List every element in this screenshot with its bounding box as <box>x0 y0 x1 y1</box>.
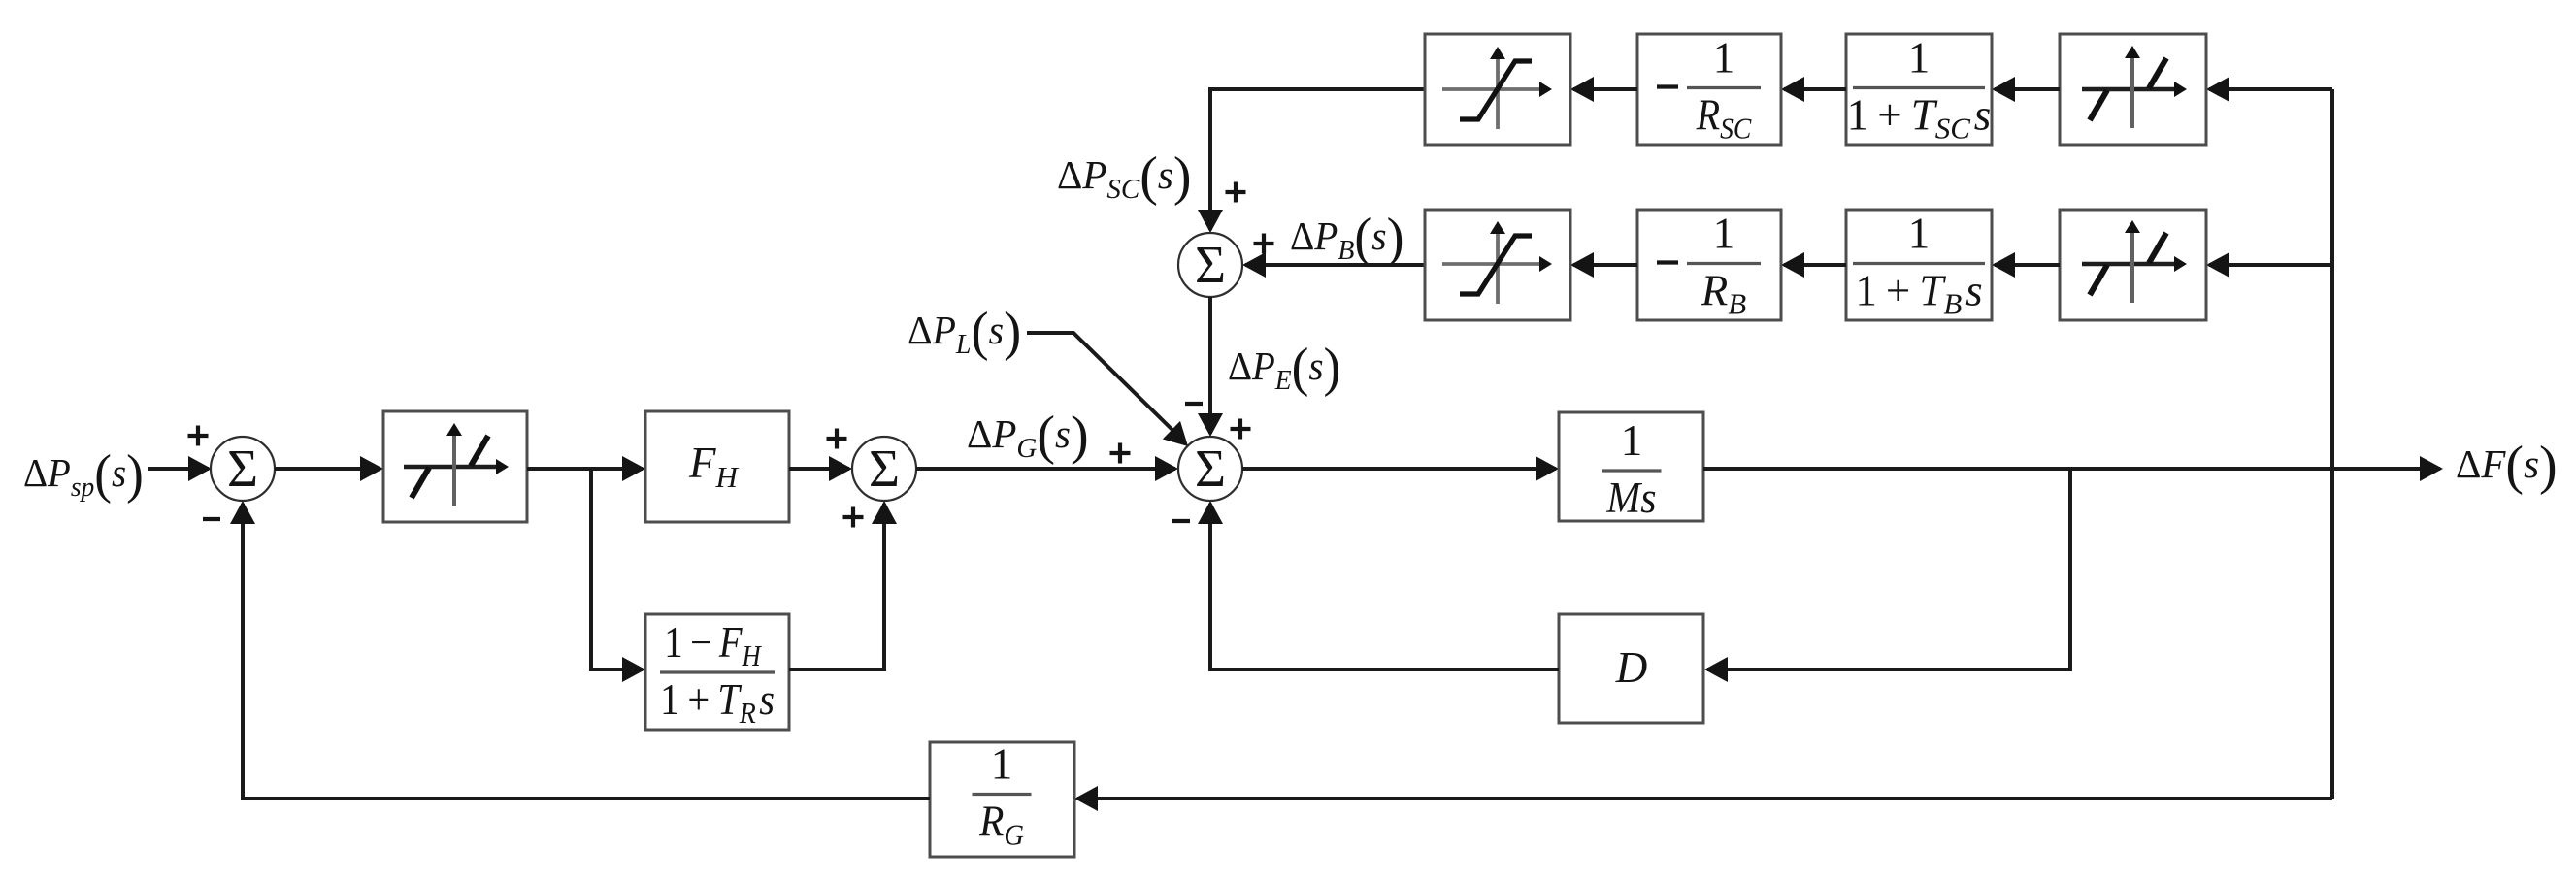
wire to -1/R_SC <box>1781 77 1846 102</box>
block GDB3 dead-band chain2 <box>2060 210 2206 320</box>
label ΔP_L(s) <box>908 301 1021 361</box>
wire F_H to sum S2 <box>789 456 852 481</box>
svg-text:D: D <box>1615 643 1648 692</box>
label ΔP_E(s) <box>1228 337 1340 398</box>
label ΔP_G(s) <box>967 406 1089 466</box>
wire branch down to transfer block <box>591 469 645 682</box>
svg-text:1: 1 <box>1908 34 1931 82</box>
wire chain2 output into S4 right <box>1242 252 1425 278</box>
wire S1 to dead-band GDB1 <box>275 456 383 481</box>
block 1/(1+T_SC s) <box>1846 34 1992 146</box>
svg-text:Σ: Σ <box>1195 235 1226 294</box>
summing junction S2 <box>852 437 916 501</box>
svg-text:1 + TR s: 1 + TR s <box>660 676 775 730</box>
block GRC2 saturation chain2 <box>1425 210 1570 320</box>
svg-text:1: 1 <box>1621 416 1643 465</box>
block 1/(1+T_B s) <box>1846 210 1992 321</box>
sign − at S3 lower-right <box>1172 519 1190 523</box>
wire to limiter GRC1 <box>1570 77 1637 102</box>
block D <box>1559 614 1703 723</box>
svg-text:1: 1 <box>1908 210 1931 258</box>
svg-text:1 + TB s: 1 + TB s <box>1855 267 1982 321</box>
block -1/R_SC <box>1637 34 1781 146</box>
wire ΔP_L leader and diagonal arrow <box>1027 333 1188 446</box>
wire 1/Ms to output ΔF(s) <box>1703 456 2443 481</box>
svg-text:1 + TSC s: 1 + TSC s <box>1847 91 1991 146</box>
wire takeoff down to D block <box>1704 469 2070 682</box>
block 1/Ms <box>1559 412 1703 522</box>
wire feedback to 1/R_G <box>1074 786 2332 811</box>
sign + at S1 upper left <box>188 426 209 446</box>
sign + at S2 upper left <box>827 429 847 449</box>
summing junction S4 <box>1178 233 1242 297</box>
wire to limiter GRC2 <box>1570 252 1637 278</box>
sign + at S3 upper-right <box>1231 419 1251 440</box>
svg-text:1: 1 <box>1713 210 1735 258</box>
block F_H <box>645 411 789 522</box>
wire input to sum S1 <box>148 456 212 481</box>
sign − at S3 upper-left <box>1185 402 1203 406</box>
svg-text:1: 1 <box>991 740 1013 789</box>
sign + at S4 right <box>1254 234 1274 254</box>
summing junction S1 <box>211 437 275 501</box>
wire to -1/R_B <box>1781 252 1846 278</box>
sign + at S4 top <box>1226 182 1246 203</box>
svg-text:Σ: Σ <box>869 439 900 498</box>
wire GDB1 to F_H with branch node <box>527 456 645 481</box>
wire top chain output down into S4 <box>1198 89 1425 233</box>
svg-text:Σ: Σ <box>227 439 258 498</box>
wire 1/R_G to S1 bottom <box>230 501 930 799</box>
block GDB1 governor dead-band <box>383 411 527 522</box>
block 1/R_G <box>930 740 1074 858</box>
block GRC1 saturation chain1 <box>1425 34 1570 145</box>
svg-text:Ms: Ms <box>1605 474 1656 523</box>
wire D to S3 bottom <box>1198 501 1559 670</box>
svg-text:Σ: Σ <box>1195 439 1226 498</box>
label ΔP_B(s) <box>1290 207 1404 267</box>
svg-text:1: 1 <box>1713 34 1735 82</box>
sign − at S1 lower left <box>203 517 220 521</box>
wire S2 to main sum S3 <box>916 456 1178 481</box>
label ΔP_SC(s) <box>1057 147 1192 207</box>
wire GDB2 to 1/(1+T_SC s) <box>1992 77 2060 102</box>
wire into dead-band GDB2 <box>2206 77 2332 102</box>
sign + at S3 left <box>1110 443 1131 464</box>
block -1/R_B <box>1637 210 1781 321</box>
summing junction S3 main <box>1178 437 1242 501</box>
wire S3 to 1/Ms <box>1242 456 1559 481</box>
wire GDB3 to 1/(1+T_B s) <box>1992 252 2060 278</box>
block (1-F_H)/(1+T_R s) <box>645 614 789 730</box>
label ΔP_sp(s) input <box>23 443 144 505</box>
wire into dead-band GDB3 <box>2206 252 2332 278</box>
block GDB2 dead-band chain1 <box>2060 34 2206 145</box>
label ΔF(s) output <box>2456 436 2558 496</box>
wire transfer block to S2 bottom <box>789 501 897 670</box>
wire right vertical feedback <box>2330 89 2334 799</box>
sign + at S2 lower left <box>843 507 864 528</box>
wire S4 down to S3 (ΔP_E) <box>1198 297 1223 437</box>
